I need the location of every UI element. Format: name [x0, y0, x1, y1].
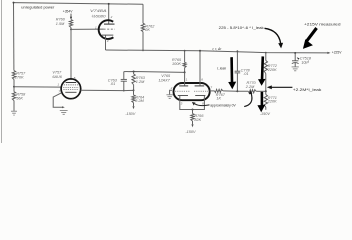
wire: unregulated power top bus [14, 3, 144, 5]
V757 grid dashes row3 [63, 89, 78, 91]
node: top-left junction [13, 2, 15, 4]
page border left edge [1, 0, 3, 143]
svg-text:.01: .01 [110, 82, 115, 86]
wire: V748A plate lead from top bus [108, 4, 110, 24]
resistor R765 100K (plate load) [184, 51, 186, 63]
V748A plate bar [104, 23, 115, 25]
svg-text:220K: 220K [267, 68, 277, 72]
capacitor C7518 [294, 52, 296, 54]
svg-text:12AX7: 12AX7 [158, 79, 170, 83]
svg-text:220K: 220K [267, 100, 277, 104]
tube V757 envelope [61, 79, 81, 99]
V765 left grid dashes [175, 90, 190, 92]
svg-text:56K: 56K [16, 97, 23, 101]
V757 cathode bar [65, 91, 76, 93]
node wire A end [184, 71, 186, 73]
svg-text:approximately 0V: approximately 0V [210, 103, 236, 107]
ground below R758 [11, 110, 17, 112]
svg-text:+2.2M*I_leak: +2.2M*I_leak [293, 88, 322, 92]
svg-text:unregulated power: unregulated power [21, 6, 55, 10]
svg-text:r, r, Δr: r, r, Δr [213, 47, 223, 51]
svg-text:100K: 100K [172, 62, 181, 66]
resistor R767 1K [215, 89, 224, 92]
svg-text:I_leak: I_leak [217, 66, 226, 70]
ground below C7518 [292, 66, 299, 68]
svg-text:2.2M: 2.2M [134, 99, 144, 103]
resistor R772 220K [265, 53, 267, 61]
V765 right grid dashes [194, 90, 208, 92]
wire: grid feed to V757 [14, 86, 61, 88]
resistor R764 2.2M [132, 95, 135, 103]
V748A cathode bar [102, 34, 114, 36]
svg-text:V765: V765 [161, 74, 171, 78]
svg-text:2: 2 [110, 15, 113, 19]
thick arrow onto R770 junction [261, 56, 264, 80]
svg-text:V748A: V748A [90, 9, 107, 13]
svg-text:82K: 82K [194, 118, 201, 122]
wire: V748A grid node down to V757 plate [70, 29, 72, 79]
wire: +225V bus [106, 50, 330, 53]
svg-text:+225V: +225V [332, 51, 342, 55]
arrow: +354V pointer [70, 14, 72, 18]
svg-text:2: 2 [71, 97, 74, 101]
svg-text:-150V: -150V [125, 112, 136, 116]
V765 left plate bar [179, 85, 188, 87]
V765 right plate bar [195, 85, 205, 87]
svg-text:½6080: ½6080 [92, 14, 107, 18]
annotation +2.2M * I_leak with left arrow [270, 86, 292, 88]
tube V748A (half 6080) envelope arc [99, 20, 114, 39]
svg-text:1.5M: 1.5M [56, 22, 65, 26]
svg-text:2: 2 [170, 86, 173, 90]
curved arrow from formula to bus [265, 28, 281, 43]
capacitor C778 .01 [236, 51, 238, 71]
tube V765 envelope racetrack [174, 83, 210, 100]
V765 right grid lead out [210, 90, 215, 92]
resistor R757 270K [12, 71, 15, 80]
thick arrow top right to bus [306, 28, 316, 41]
curved arrow from approximately 0V to grid wire [244, 93, 252, 107]
svg-text:+354V: +354V [63, 9, 73, 13]
V765 left grid lead to ground [170, 90, 172, 94]
svg-text:270K: 270K [14, 76, 24, 80]
resistor R763 [133, 72, 135, 75]
svg-text:1.2M: 1.2M [136, 80, 145, 84]
svg-text:225 - 5.8*10^-6 * I_leak: 225 - 5.8*10^-6 * I_leak [219, 26, 264, 30]
V748A cathode lead [105, 35, 107, 50]
svg-text:2K: 2K [144, 28, 150, 32]
ground at V765 left grid [166, 94, 173, 96]
node: R760 bottom / V748A grid / V757 plate junction [70, 28, 72, 30]
V757 cathode lead and ground [53, 93, 63, 107]
svg-text:2.2M: 2.2M [245, 85, 255, 89]
wire A: plate node wire [124, 71, 185, 74]
V757 plate bar [66, 82, 77, 84]
C7518 label pointer [297, 57, 300, 60]
wire: screen node to R763/R764 junction [124, 89, 134, 91]
svg-text:V757: V757 [52, 70, 62, 74]
capacitor C763 .01 [123, 72, 125, 80]
resistor R758 56K [12, 92, 15, 101]
V765 left plate lead [184, 72, 186, 85]
V757 grid dashes row2 [63, 86, 79, 88]
thick arrow down to -150V [261, 92, 264, 106]
V765 right cathode bar [195, 95, 205, 97]
node: R757/R758 junction [13, 86, 15, 88]
resistor R762 2K [142, 4, 144, 23]
svg-text:1K: 1K [216, 97, 221, 101]
V757 grid dashes row1 [64, 84, 78, 86]
wire: V757 screen out to the right [81, 89, 124, 91]
svg-text:+215V measured: +215V measured [304, 23, 341, 27]
V748A grid dashes [104, 28, 115, 30]
resistor R760 1.5M [69, 20, 72, 28]
resistor R766 82K [192, 110, 194, 114]
resistor R770 2.2M [237, 90, 248, 92]
node R772/R771/R770 junction [265, 90, 267, 92]
V765 left cathode bar [178, 95, 188, 97]
curved arrow from approximately 0V to cathode [195, 104, 210, 106]
thick arrow I_leak [230, 57, 233, 83]
wire: grid wire to V748A [71, 28, 104, 30]
V765 cathode leads and bottom tie [180, 96, 205, 110]
resistor R771 220K [264, 95, 267, 108]
svg-text:6AU6: 6AU6 [52, 75, 62, 79]
arrow: bus end arrowhead [327, 52, 330, 54]
svg-text:-150V: -150V [260, 112, 271, 116]
wire: left vertical unregulated feed [13, 3, 15, 71]
svg-text:.01: .01 [243, 72, 248, 76]
V765 right plate lead from bus [199, 51, 201, 86]
svg-text:-150V: -150V [185, 130, 196, 134]
